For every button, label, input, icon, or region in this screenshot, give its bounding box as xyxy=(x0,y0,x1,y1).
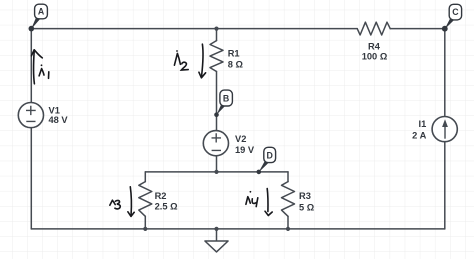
junction dot at V2 bottom xyxy=(214,170,218,174)
node C xyxy=(442,4,462,31)
label R1 value xyxy=(228,48,244,69)
wire left lower (V1 to bottom) xyxy=(30,128,32,229)
wire left upper (A to V1) xyxy=(30,29,32,103)
wire bottom xyxy=(31,228,445,230)
svg-text:R3: R3 xyxy=(299,191,311,201)
wire V2 to middle junction xyxy=(216,156,218,172)
wire right upper (C to I1) xyxy=(444,29,446,117)
svg-text:8 Ω: 8 Ω xyxy=(228,60,244,70)
node D xyxy=(257,147,276,174)
node B xyxy=(214,90,232,117)
svg-text:19 V: 19 V xyxy=(235,145,255,155)
label R2 value xyxy=(155,191,179,212)
resistor R2 xyxy=(139,182,152,217)
current arrow i3 xyxy=(110,187,134,217)
current arrow i1 xyxy=(31,50,48,84)
wire R1 to V2 (node B) xyxy=(216,72,218,131)
svg-text:D: D xyxy=(267,150,273,160)
svg-text:R1: R1 xyxy=(228,48,240,58)
svg-text:100 Ω: 100 Ω xyxy=(362,52,388,62)
svg-text:B: B xyxy=(223,94,229,104)
wire right lower (I1 to bottom) xyxy=(444,142,446,229)
wire R3 to bottom xyxy=(287,216,289,229)
svg-text:R2: R2 xyxy=(155,191,167,201)
svg-text:V1: V1 xyxy=(49,105,60,115)
current arrow i2 xyxy=(174,44,205,78)
voltage source V1 xyxy=(18,103,68,128)
svg-text:A: A xyxy=(38,7,45,17)
label R4 value xyxy=(362,41,388,61)
resistor R4 xyxy=(357,22,390,35)
wire R2 to bottom xyxy=(144,216,146,229)
svg-text:48 V: 48 V xyxy=(49,115,69,125)
wire top from node A to R4 xyxy=(31,28,357,30)
voltage source V2 xyxy=(203,131,255,156)
wire top from R4 to node C xyxy=(390,28,445,30)
wire into R2 xyxy=(144,172,146,182)
resistor R3 xyxy=(282,182,295,217)
ground xyxy=(205,229,228,252)
current arrow i4 xyxy=(246,189,272,216)
junction dot at R3 bottom xyxy=(286,227,290,231)
svg-text:2.5 Ω: 2.5 Ω xyxy=(155,202,179,212)
svg-text:5 Ω: 5 Ω xyxy=(299,202,315,212)
label R3 value xyxy=(299,191,315,213)
current source I1 xyxy=(412,117,457,142)
svg-text:C: C xyxy=(452,7,459,17)
resistor R1 xyxy=(210,41,223,72)
svg-text:2 A: 2 A xyxy=(412,130,426,140)
junction dot at ground xyxy=(214,227,218,231)
node A xyxy=(29,4,48,31)
junction dot at R1 top xyxy=(214,27,218,31)
svg-text:V2: V2 xyxy=(235,134,246,144)
svg-text:I1: I1 xyxy=(419,119,427,129)
svg-text:R4: R4 xyxy=(368,41,381,51)
wire into R3 xyxy=(287,172,289,182)
junction dot at R2 bottom xyxy=(143,227,147,231)
wire from top junction into R1 xyxy=(216,29,218,41)
wire middle horizontal (R2 top to R3 top) xyxy=(145,171,288,173)
